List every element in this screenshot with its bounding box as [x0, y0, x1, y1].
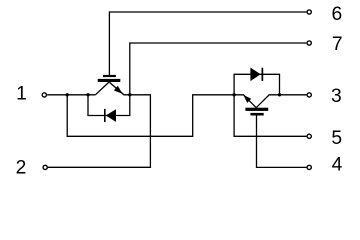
junction: Q2 emitter node [232, 93, 235, 96]
D1 triangle [106, 109, 116, 122]
svg-text:1: 1 [16, 84, 27, 105]
svg-text:5: 5 [331, 128, 342, 149]
wire: gate of Q2 down to terminal 4 [257, 116, 307, 168]
D1 cathode bar [104, 109, 106, 122]
wire: emitter node of Q1 right and down to terminal 2 [48, 95, 150, 168]
D2 triangle [250, 68, 260, 82]
terminal circle 7 [307, 41, 311, 45]
junction: T1 net / D1 cathode [86, 93, 89, 96]
svg-text:2: 2 [16, 158, 27, 179]
terminal circle 5 [307, 134, 311, 138]
wire: terminal 7 to emitter node of Q1 [130, 43, 307, 95]
wire: node A (terminal 1 net) down and across to emitter of Q2 [67, 95, 234, 137]
wire: terminal 1 to collector of Q1 [47, 94, 95, 96]
terminal circle 2 [43, 165, 47, 169]
wire: diode D1 loop [88, 95, 130, 116]
junction: Q1 emitter node [128, 93, 131, 96]
terminal circle 4 [307, 165, 311, 169]
diode D2 (anti-parallel to Q2) [250, 68, 263, 82]
Q1 emitter arrow [114, 86, 123, 94]
svg-text:3: 3 [331, 86, 342, 107]
terminal circle 1 [42, 93, 46, 97]
svg-text:6: 6 [332, 4, 343, 25]
transistor Q2 (right IGBT) [234, 95, 279, 116]
svg-text:4: 4 [332, 155, 343, 176]
D2 cathode bar [262, 68, 264, 81]
Q1 emitter lead [109, 82, 130, 95]
Q1 body bar [98, 79, 121, 82]
wire: terminal 6 to gate of Q1 [109, 12, 306, 75]
terminal circle 6 [307, 10, 311, 14]
terminal circle 3 [307, 93, 311, 97]
wire: diode D2 loop [234, 74, 279, 95]
junction: T1 net / cross wire [66, 93, 69, 96]
wire: collector of Q2 to terminal 3 [280, 94, 307, 96]
Q2 emitter lead [234, 95, 256, 108]
junction: Q2 collector node [278, 93, 281, 96]
Q2 collector lead [256, 95, 279, 108]
wire: emitter node of Q2 down to terminal 5 [234, 95, 306, 137]
Q2 body bar [245, 108, 268, 111]
Q1 gate bar [103, 75, 116, 77]
svg-text:7: 7 [332, 34, 343, 55]
Q2 gate bar [250, 113, 263, 116]
Q1 collector lead [95, 82, 109, 95]
transistor Q1 (left IGBT) [95, 75, 129, 95]
Q2 emitter arrow [243, 95, 251, 103]
diode D1 (anti-parallel to Q1) [104, 109, 116, 122]
